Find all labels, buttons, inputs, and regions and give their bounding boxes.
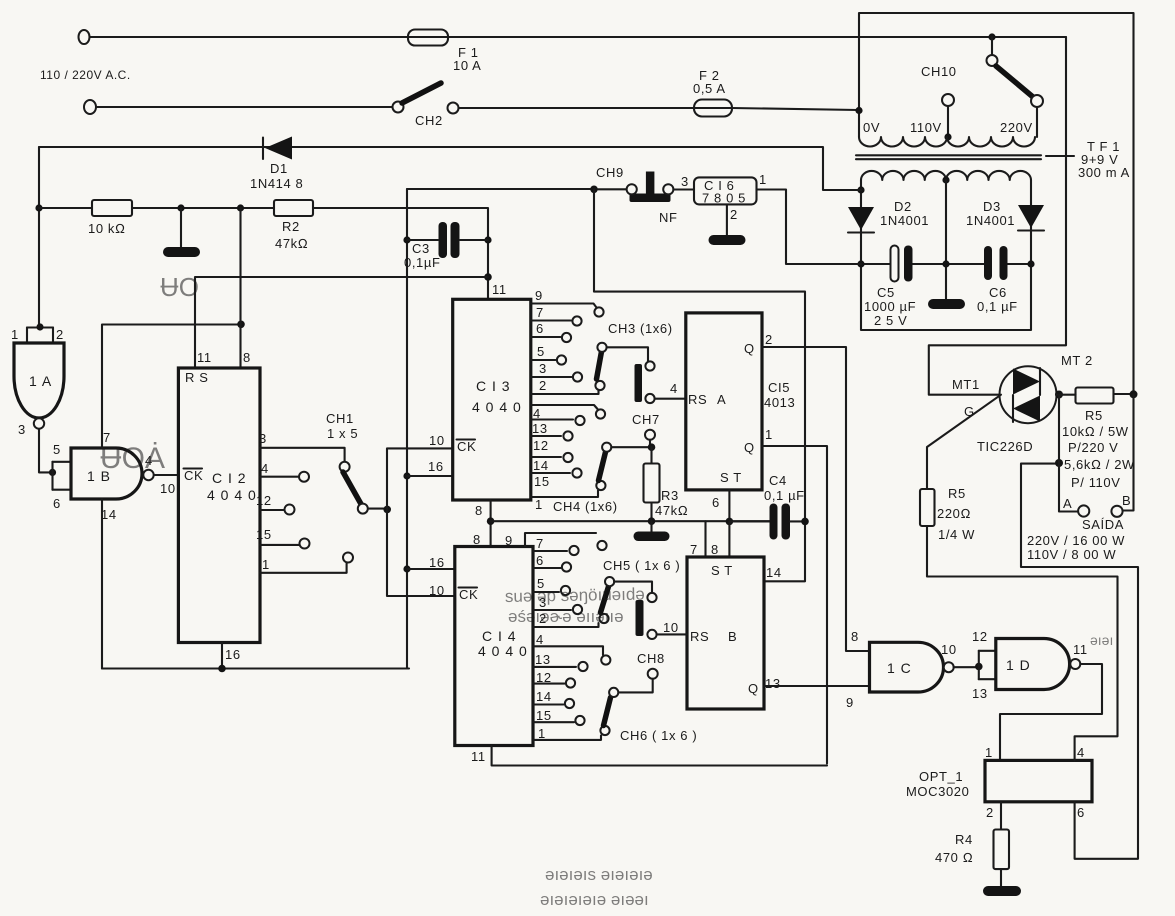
svg-text:14: 14 bbox=[533, 458, 549, 473]
tap 110V terminal bbox=[942, 94, 954, 141]
svg-text:C5: C5 bbox=[877, 285, 895, 300]
AC input terminal lower bbox=[84, 100, 96, 114]
label CI3 4040 bbox=[472, 378, 522, 415]
svg-text:11: 11 bbox=[492, 282, 507, 297]
wire CI4 pin15 bbox=[533, 716, 585, 725]
wire CI3 pin13 bbox=[531, 416, 585, 425]
wire CI3 pin3 bbox=[531, 372, 582, 381]
svg-text:16: 16 bbox=[428, 459, 444, 474]
ground CI6 pin2 bbox=[709, 205, 746, 246]
wire CI4 pin4 bbox=[533, 646, 610, 664]
switch CH3 bbox=[595, 343, 685, 403]
diode D2 bbox=[848, 207, 874, 233]
gate 1B input bracket bbox=[53, 462, 72, 490]
svg-text:10: 10 bbox=[663, 620, 679, 635]
wire CI4 pin11 rail bbox=[492, 746, 827, 766]
svg-text:220V: 220V bbox=[1000, 120, 1033, 135]
wire CI3 pin7 bbox=[531, 316, 582, 325]
svg-text:R2: R2 bbox=[282, 219, 300, 234]
node R3 bottom bbox=[648, 517, 656, 525]
svg-text:0,5 A: 0,5 A bbox=[693, 81, 726, 96]
node R1 left bbox=[35, 204, 42, 211]
svg-text:CH6 ( 1x 6 ): CH6 ( 1x 6 ) bbox=[620, 728, 697, 743]
svg-text:9: 9 bbox=[846, 695, 854, 710]
wire QB to 1C pin9 bbox=[764, 685, 870, 687]
svg-text:13: 13 bbox=[765, 676, 781, 691]
label OPT-1 MOC3020 bbox=[906, 769, 969, 799]
gate 1C bbox=[870, 642, 954, 692]
svg-text:10: 10 bbox=[429, 583, 445, 598]
wire QA to 1C pin8 bbox=[762, 347, 870, 651]
svg-text:1N414 8: 1N414 8 bbox=[250, 176, 303, 191]
label R4 470 bbox=[935, 832, 973, 865]
svg-text:3: 3 bbox=[259, 431, 267, 446]
svg-text:470 Ω: 470 Ω bbox=[935, 850, 973, 865]
label F2 0,5A bbox=[693, 68, 726, 96]
svg-text:11: 11 bbox=[197, 350, 212, 365]
svg-text:15: 15 bbox=[534, 474, 550, 489]
svg-text:0,1 µF: 0,1 µF bbox=[977, 299, 1018, 314]
label CI5 4013 bbox=[764, 380, 795, 410]
svg-text:5: 5 bbox=[537, 344, 545, 359]
svg-text:9: 9 bbox=[505, 533, 513, 548]
svg-text:Q: Q bbox=[744, 440, 755, 455]
wire CI4 pin9 bbox=[525, 533, 607, 550]
switch CH10 bbox=[987, 37, 1044, 137]
svg-text:14: 14 bbox=[766, 565, 782, 580]
svg-text:6: 6 bbox=[536, 553, 544, 568]
svg-text:11: 11 bbox=[1073, 642, 1088, 657]
svg-text:CH10: CH10 bbox=[921, 64, 957, 79]
svg-text:9: 9 bbox=[535, 288, 543, 303]
svg-text:14: 14 bbox=[536, 689, 552, 704]
svg-text:OPT_1: OPT_1 bbox=[919, 769, 963, 784]
switch CH8 bbox=[618, 669, 658, 693]
svg-text:TIC226D: TIC226D bbox=[977, 439, 1033, 454]
svg-text:1 C: 1 C bbox=[887, 660, 912, 676]
svg-text:C3: C3 bbox=[412, 241, 430, 256]
IC CI4 4040 bbox=[455, 547, 533, 746]
capacitor C6 bbox=[984, 246, 1008, 280]
wire CI4 pin6 bbox=[533, 562, 571, 571]
svg-text:CH8: CH8 bbox=[637, 651, 665, 666]
label D3 1N4001 bbox=[966, 199, 1015, 228]
wire +5V to flip-flops pin14 bbox=[594, 189, 805, 581]
wire 1B out to CI2 CK bbox=[154, 474, 178, 476]
label CK CI2 bbox=[184, 468, 204, 483]
wire 1B pin14 down bbox=[101, 499, 103, 669]
wire CI4 pin13 bbox=[533, 662, 588, 671]
wire CI3 pin15 bbox=[531, 468, 582, 477]
node R5 right bbox=[1130, 390, 1138, 398]
svg-text:4: 4 bbox=[1077, 745, 1085, 760]
switch CH1 bbox=[340, 462, 387, 514]
svg-text:R S: R S bbox=[185, 370, 208, 385]
regulator CI6 7805 bbox=[694, 177, 757, 204]
svg-text:4: 4 bbox=[670, 381, 678, 396]
svg-text:R5: R5 bbox=[948, 486, 966, 501]
svg-text:7: 7 bbox=[536, 305, 544, 320]
node C4 right bbox=[801, 518, 809, 526]
wire 1A out to 1B in bbox=[39, 429, 53, 472]
optocoupler OPT-1 MOC3020 bbox=[985, 760, 1092, 801]
svg-text:5,6kΩ / 2W: 5,6kΩ / 2W bbox=[1064, 457, 1135, 472]
wire CI3 pin5 bbox=[531, 355, 566, 364]
svg-text:CH2: CH2 bbox=[415, 113, 443, 128]
label R5 10k 5W bbox=[1062, 408, 1129, 455]
svg-text:4: 4 bbox=[536, 632, 544, 647]
wire CI2 pin8 stem bbox=[239, 208, 241, 368]
transformer TF1 primary winding bbox=[859, 137, 1035, 147]
resistor R1 bbox=[92, 200, 132, 216]
wire CI2 pin15 bbox=[260, 539, 310, 549]
node C3 right bbox=[484, 236, 491, 243]
svg-text:7: 7 bbox=[690, 542, 698, 557]
svg-text:C6: C6 bbox=[989, 285, 1007, 300]
label RS B bbox=[690, 629, 737, 644]
IC CI5 flip-flop A bbox=[686, 313, 762, 490]
wire CI3 pin2 bbox=[531, 391, 599, 395]
wire +9V rail bbox=[861, 263, 1031, 265]
svg-text:11: 11 bbox=[471, 749, 486, 764]
node 5,6k junction bbox=[1055, 459, 1063, 467]
wire CH1 pole to CK CI3 CI4 bbox=[387, 448, 455, 596]
svg-text:8: 8 bbox=[711, 542, 719, 557]
svg-text:MT 2: MT 2 bbox=[1061, 353, 1093, 368]
svg-text:12: 12 bbox=[972, 629, 988, 644]
svg-text:2: 2 bbox=[765, 332, 773, 347]
svg-text:2: 2 bbox=[539, 378, 547, 393]
wire R1 row bbox=[39, 207, 274, 209]
svg-text:2 5 V: 2 5 V bbox=[874, 313, 907, 328]
svg-text:suə əp səŋöıúəıdə: suə əp səŋöıúəıdə bbox=[505, 585, 645, 606]
svg-text:10: 10 bbox=[941, 642, 957, 657]
svg-text:5: 5 bbox=[53, 442, 61, 457]
capacitor C5 bbox=[891, 246, 913, 282]
switch CH7 bbox=[645, 430, 655, 447]
svg-text:CH3 (1x6): CH3 (1x6) bbox=[608, 321, 673, 336]
svg-text:8: 8 bbox=[243, 350, 251, 365]
svg-text:13: 13 bbox=[972, 686, 988, 701]
node +9V left bbox=[857, 260, 864, 267]
wire CI4 pin1 bbox=[533, 736, 601, 740]
svg-text:CH1: CH1 bbox=[326, 411, 354, 426]
wire B to R5 right bbox=[1123, 394, 1134, 510]
AC input terminal upper bbox=[79, 30, 90, 44]
svg-text:1: 1 bbox=[985, 745, 993, 760]
svg-text:1/4 W: 1/4 W bbox=[938, 527, 975, 542]
ghost print-through marks bbox=[100, 272, 1113, 909]
wire QbarA to CI4 pin11 rail bbox=[762, 446, 827, 764]
svg-text:1N4001: 1N4001 bbox=[880, 213, 929, 228]
switch CH4 bbox=[596, 443, 651, 491]
svg-text:6: 6 bbox=[53, 496, 61, 511]
node reset rail right bbox=[484, 273, 492, 281]
wire CI3 pin9 bbox=[531, 304, 604, 317]
node 1D input bbox=[975, 663, 983, 671]
wire gate diagonal bbox=[927, 395, 1001, 489]
svg-text:B: B bbox=[728, 629, 737, 644]
svg-text:CK: CK bbox=[459, 587, 478, 602]
svg-text:1: 1 bbox=[535, 497, 543, 512]
svg-text:15: 15 bbox=[536, 708, 552, 723]
svg-text:əıəıəıs əıəıəıə: əıəıəıs əıəıəıə bbox=[545, 865, 653, 884]
svg-text:12: 12 bbox=[256, 493, 272, 508]
terminal B bbox=[1111, 506, 1122, 517]
node CI3 pin8 rail bbox=[487, 517, 495, 525]
node ground tap bbox=[177, 204, 184, 211]
diode D3 bbox=[1018, 205, 1044, 231]
svg-text:B: B bbox=[1122, 493, 1131, 508]
transformer center tap ground bbox=[928, 176, 965, 309]
svg-text:1: 1 bbox=[11, 327, 19, 342]
label CI4 4040 bbox=[478, 628, 528, 659]
wire CH2 to F2 bbox=[459, 107, 733, 109]
wire CI3 pin12 bbox=[531, 431, 573, 440]
wire D1 rail bbox=[39, 147, 861, 190]
node +9V right bbox=[1027, 260, 1034, 267]
node ST rail pin6 bbox=[726, 518, 734, 526]
wire CI4 pin16 bbox=[407, 568, 455, 570]
svg-text:110V / 8 00 W: 110V / 8 00 W bbox=[1027, 547, 1116, 562]
svg-text:6: 6 bbox=[536, 321, 544, 336]
svg-text:16: 16 bbox=[225, 647, 241, 662]
gate 1A bbox=[14, 343, 64, 429]
label TF1 9+9V 300mA bbox=[1046, 139, 1130, 180]
svg-text:7 8 0 5: 7 8 0 5 bbox=[702, 191, 746, 206]
svg-text:8: 8 bbox=[475, 503, 483, 518]
svg-text:110 / 220V A.C.: 110 / 220V A.C. bbox=[40, 68, 131, 82]
wire CI2 pin1 bbox=[260, 553, 353, 573]
svg-text:C I 2: C I 2 bbox=[212, 470, 247, 486]
wire CI3 pin8 stem bbox=[490, 500, 492, 547]
svg-text:S T: S T bbox=[720, 470, 742, 485]
node R2 junction bbox=[237, 204, 244, 211]
wire AC line 2 left bbox=[96, 106, 393, 108]
label R2 47kOhm bbox=[275, 219, 308, 251]
svg-text:1: 1 bbox=[262, 557, 270, 572]
label F1 10A bbox=[453, 45, 481, 73]
fuse F1 bbox=[408, 30, 448, 46]
wire R2 to reset rail bbox=[313, 208, 488, 299]
svg-text:2: 2 bbox=[56, 327, 64, 342]
switch CH6 bbox=[600, 688, 618, 735]
svg-text:0V: 0V bbox=[863, 120, 880, 135]
svg-text:C I 3: C I 3 bbox=[476, 378, 511, 394]
label 5,6k 2W P110V bbox=[1064, 457, 1135, 490]
label C4 0,1uF bbox=[764, 473, 805, 503]
wire +5V vertical bbox=[406, 189, 408, 669]
wire left vertical bbox=[38, 147, 40, 328]
label D2 1N4001 bbox=[880, 199, 929, 228]
svg-text:D2: D2 bbox=[894, 199, 912, 214]
wire CI3 pin16 bbox=[407, 475, 453, 477]
svg-text:12: 12 bbox=[533, 438, 549, 453]
svg-text:220Ω: 220Ω bbox=[937, 506, 971, 521]
wire MT2 to A terminal bbox=[1059, 395, 1078, 512]
svg-text:10: 10 bbox=[429, 433, 445, 448]
svg-text:10: 10 bbox=[160, 481, 176, 496]
wire CI5B pin7 stem bbox=[704, 521, 706, 557]
label CH1 1x5 bbox=[326, 411, 358, 441]
svg-text:CH4 (1x6): CH4 (1x6) bbox=[553, 499, 618, 514]
wire CI4 pin2 bbox=[533, 623, 599, 627]
resistor R2 bbox=[274, 200, 313, 216]
switch CH5 bbox=[599, 577, 687, 639]
svg-text:əśəıəɚə əııəııə: əśəıəɚə əııəııə bbox=[508, 607, 624, 626]
wire OPT pin6 to triac gate node bbox=[1021, 464, 1138, 859]
svg-text:S T: S T bbox=[711, 563, 733, 578]
wire CI6 pin1 to +9V bbox=[757, 190, 862, 265]
wire CI4 pin7 bbox=[533, 546, 579, 555]
ground under R4 bbox=[983, 886, 1021, 896]
label C6 0,1uF bbox=[977, 285, 1018, 314]
svg-text:3: 3 bbox=[539, 361, 547, 376]
svg-text:1: 1 bbox=[765, 427, 773, 442]
wire CI2 pin16 bbox=[218, 643, 226, 673]
node CI3 pin16 bbox=[403, 472, 410, 479]
svg-text:110V: 110V bbox=[910, 120, 942, 135]
svg-text:D3: D3 bbox=[983, 199, 1001, 214]
svg-text:1 x 5: 1 x 5 bbox=[327, 426, 358, 441]
svg-text:6: 6 bbox=[712, 495, 720, 510]
svg-text:300 m A: 300 m A bbox=[1078, 165, 1130, 180]
resistor R3 bbox=[644, 447, 660, 521]
svg-text:1N4001: 1N4001 bbox=[966, 213, 1015, 228]
label C3 0,1uF bbox=[404, 241, 441, 270]
svg-text:6: 6 bbox=[1077, 805, 1085, 820]
wire 1B pin7 rail bbox=[102, 325, 241, 449]
wire CI4 pin12 bbox=[533, 678, 575, 687]
svg-text:47kΩ: 47kΩ bbox=[655, 503, 688, 518]
transformer TF1 core bbox=[856, 155, 1041, 159]
svg-text:CH5 ( 1x 6 ): CH5 ( 1x 6 ) bbox=[603, 558, 680, 573]
capacitor C4 bbox=[729, 504, 806, 540]
IC CI5 flip-flop B bbox=[687, 557, 764, 709]
wire CI4 pin3 bbox=[533, 605, 582, 614]
svg-text:0,1 µF: 0,1 µF bbox=[764, 488, 805, 503]
svg-text:C4: C4 bbox=[769, 473, 787, 488]
wire CI4 pin14 bbox=[533, 699, 574, 708]
svg-text:14: 14 bbox=[101, 507, 117, 522]
wire CI2 ground rail bbox=[102, 667, 409, 669]
label D1 1N4148 bbox=[250, 161, 303, 191]
svg-text:13: 13 bbox=[535, 652, 551, 667]
resistor R5 10k bbox=[1076, 388, 1135, 404]
svg-text:MT1: MT1 bbox=[952, 377, 980, 392]
svg-text:D1: D1 bbox=[270, 161, 288, 176]
svg-text:7: 7 bbox=[536, 536, 544, 551]
node pin8 rail bbox=[237, 321, 245, 329]
wire CI5A pin6 stem bbox=[728, 490, 730, 521]
svg-text:1: 1 bbox=[538, 726, 546, 741]
svg-text:1 D: 1 D bbox=[1006, 657, 1031, 673]
node MT2 bbox=[1055, 391, 1063, 399]
terminal A bbox=[1078, 505, 1089, 516]
wire MT1 from AC bbox=[929, 37, 1066, 395]
gate 1D bbox=[996, 639, 1081, 690]
svg-text:RS: RS bbox=[688, 392, 707, 407]
svg-text:CH9: CH9 bbox=[596, 165, 624, 180]
svg-text:R5: R5 bbox=[1085, 408, 1103, 423]
svg-text:əıəı: əıəı bbox=[1090, 632, 1113, 648]
svg-text:CK: CK bbox=[184, 468, 203, 483]
wire CI2 pin4 bbox=[260, 472, 309, 482]
wire MT2 row bbox=[1057, 394, 1076, 396]
svg-text:RS: RS bbox=[690, 629, 709, 644]
wire CI3 pin14 bbox=[531, 453, 573, 462]
svg-text:CK: CK bbox=[457, 439, 476, 454]
IC CI3 4040 bbox=[453, 299, 531, 500]
gate 1B bbox=[71, 448, 154, 499]
svg-text:4013: 4013 bbox=[764, 395, 795, 410]
switch CH2 bbox=[393, 83, 459, 114]
svg-text:10kΩ / 5W: 10kΩ / 5W bbox=[1062, 424, 1129, 439]
node C3 left bbox=[403, 236, 410, 243]
wire 1C out bbox=[954, 666, 979, 668]
svg-text:SAÍDA: SAÍDA bbox=[1082, 517, 1124, 532]
svg-text:Q: Q bbox=[744, 341, 755, 356]
wire CI4 pin5 bbox=[533, 586, 570, 595]
gate 1A pins 1 2 bbox=[27, 323, 53, 343]
svg-text:13: 13 bbox=[532, 421, 548, 436]
label CK CI4 bbox=[459, 587, 479, 602]
resistor R5 220 bbox=[920, 489, 935, 526]
diode D1 bbox=[263, 137, 292, 160]
wire CI2 pin3 bbox=[260, 448, 345, 462]
svg-text:10 kΩ: 10 kΩ bbox=[88, 221, 126, 236]
svg-text:CI5: CI5 bbox=[768, 380, 790, 395]
svg-text:3: 3 bbox=[18, 422, 26, 437]
ground under R1 bbox=[163, 208, 200, 257]
svg-text:MOC3020: MOC3020 bbox=[906, 784, 969, 799]
svg-text:4 0 4 0: 4 0 4 0 bbox=[478, 643, 528, 659]
label CI6 7805 bbox=[702, 178, 746, 206]
label C5 1000uF 25V bbox=[864, 285, 916, 328]
wire ST ground rail bbox=[491, 520, 770, 522]
gate 1D input bracket bbox=[979, 651, 996, 679]
svg-text:8: 8 bbox=[851, 629, 859, 644]
svg-text:47kΩ: 47kΩ bbox=[275, 236, 308, 251]
wire reset rail bbox=[195, 277, 488, 368]
svg-text:0,1µF: 0,1µF bbox=[404, 255, 441, 270]
svg-text:4 0 4 0: 4 0 4 0 bbox=[472, 399, 522, 415]
svg-text:8: 8 bbox=[473, 532, 481, 547]
svg-text:NF: NF bbox=[659, 210, 678, 225]
node 0V junction bbox=[855, 107, 862, 114]
fuse F2 bbox=[694, 100, 732, 117]
svg-text:16: 16 bbox=[429, 555, 445, 570]
svg-text:4: 4 bbox=[261, 461, 269, 476]
svg-text:C I 4: C I 4 bbox=[482, 628, 517, 644]
wire CI3 pin6 bbox=[531, 333, 571, 342]
svg-text:2: 2 bbox=[730, 207, 738, 222]
label R3 47kOhm bbox=[655, 488, 688, 518]
wire AC line 1 bbox=[90, 36, 1066, 38]
svg-text:ɄO: ɄO bbox=[160, 272, 199, 302]
svg-text:A: A bbox=[717, 392, 726, 407]
label CK CI3 bbox=[457, 439, 477, 454]
wire +5V CH9 feed bbox=[407, 188, 594, 190]
switch CH9 pushbutton NF bbox=[598, 172, 694, 203]
node CH9 junction bbox=[590, 186, 598, 194]
node CH1 pole bbox=[383, 506, 391, 514]
svg-text:1: 1 bbox=[759, 172, 767, 187]
node center tap rail bbox=[942, 260, 949, 267]
node CI4 pin16 bbox=[403, 565, 410, 572]
triac TIC226D bbox=[1000, 366, 1057, 423]
wire R5 to OPT pin4 bbox=[927, 526, 1118, 760]
